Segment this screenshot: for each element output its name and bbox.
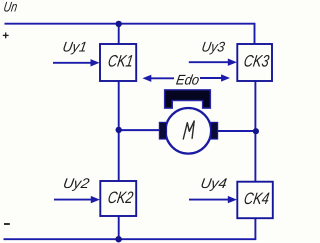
wire: top supply rail Un with corner into right rail [5,24,255,44]
svg-text:CK1: CK1 [107,52,135,70]
switch CK3 box [237,44,272,81]
svg-text:Un: Un [3,0,19,15]
plus terminal [3,33,9,39]
wire: motor left lead [120,129,162,131]
switch CK4 box [237,182,272,219]
motor stator magnet [165,90,211,108]
wire: right rail CK3 bottom through right node to CK4 top [254,81,256,182]
control arrow Uy2 [54,196,100,203]
svg-text:Uy3: Uy3 [201,39,227,55]
wire: right rail CK4 bottom with corner into bottom rail [4,218,256,239]
svg-text:CK2: CK2 [106,189,134,207]
motor brush left [159,122,166,139]
svg-text:Edo: Edo [175,71,201,87]
node: right mid junction [253,128,259,134]
control arrow Uy3 [189,59,237,66]
svg-text:Uy4: Uy4 [200,175,229,191]
switch CK2 box [100,181,136,216]
control arrow Uy1 [53,59,100,66]
motor M label [183,121,194,139]
svg-text:Uy2: Uy2 [62,175,91,191]
node: left mid junction [116,127,122,133]
wire: left rail from top rail down to CK1 [118,24,120,45]
svg-text:CK3: CK3 [242,52,270,70]
node: bottom-left junction [115,236,121,242]
motor brush right [211,122,218,139]
motor M body [166,108,212,154]
back-EMF double arrow Edo [142,74,230,82]
node: top-left junction [116,21,122,27]
svg-text:CK4: CK4 [243,190,271,208]
control arrow Uy4 [189,196,237,203]
wire: left rail CK1 bottom through mid node to CK2 top [118,81,120,181]
wire: left rail CK2 bottom to bottom rail [118,216,120,239]
switch CK1 box [100,44,136,81]
wire: motor right lead [217,130,256,132]
svg-text:Uy1: Uy1 [62,39,89,55]
minus terminal [4,223,10,225]
